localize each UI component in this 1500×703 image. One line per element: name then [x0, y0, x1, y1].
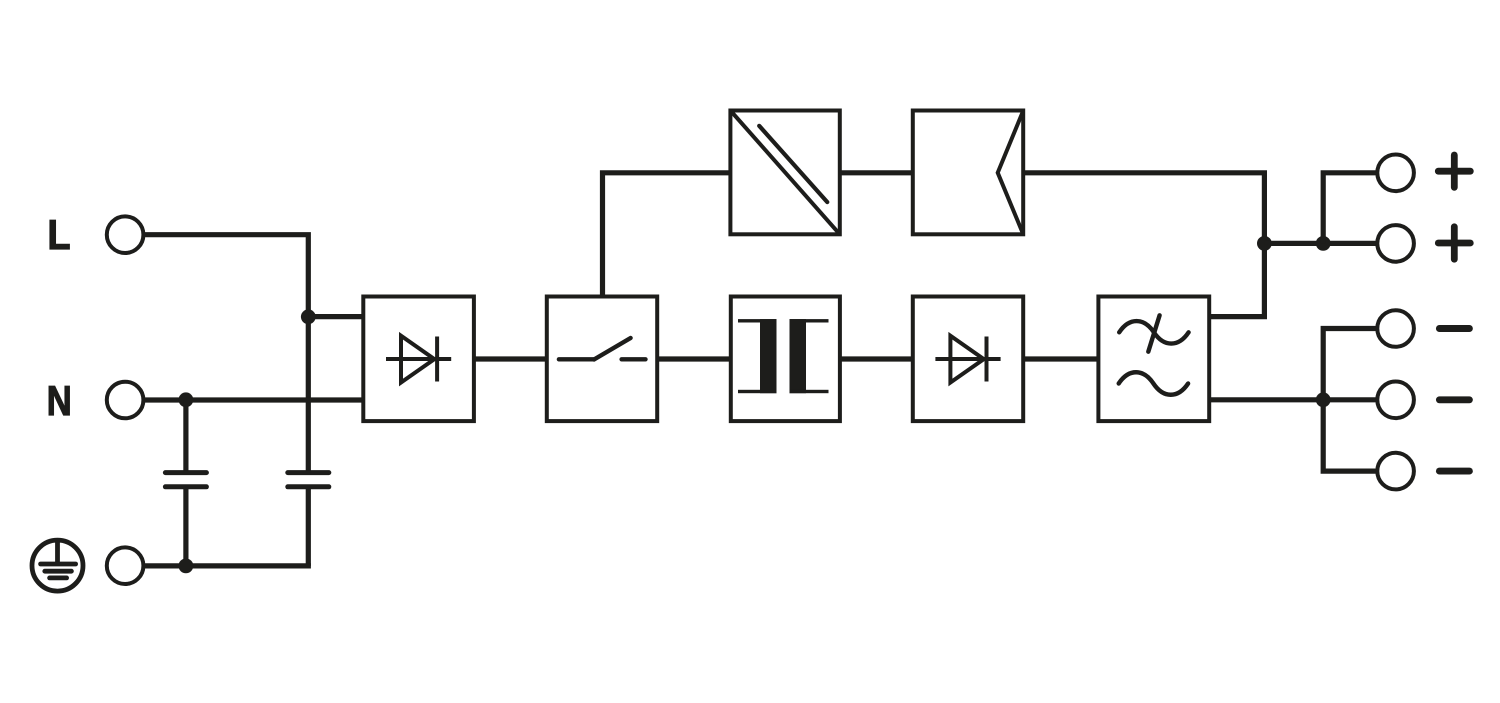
diode D2	[935, 336, 1000, 383]
svg-text:L: L	[48, 211, 71, 258]
terminal PE	[107, 547, 144, 584]
terminal plus 2	[1377, 225, 1414, 262]
wire junction to rectifier input	[308, 314, 363, 319]
converter diagonal symbol	[730, 111, 839, 235]
plus sign 2	[1438, 227, 1470, 259]
terminal N	[107, 382, 144, 419]
wire C1 to PE line	[183, 488, 188, 566]
rectifier block U2	[913, 297, 1023, 422]
minus sign 3	[1439, 468, 1469, 475]
wire N to rectifier input	[144, 397, 363, 402]
wire minus rail from filter	[1209, 397, 1375, 402]
wire T2 to output node	[1023, 173, 1264, 317]
switch symbol	[559, 338, 646, 360]
capacitor C1	[165, 473, 206, 487]
node plus rail junction 1	[1257, 236, 1272, 251]
terminal plus 1	[1377, 155, 1414, 192]
node N junction	[179, 392, 194, 407]
node minus junction	[1316, 392, 1331, 407]
capacitor C2	[288, 473, 329, 487]
limiter chevron symbol	[998, 112, 1023, 232]
wire transformer to rectifier D2	[840, 356, 913, 361]
wire N junction down to C1	[183, 400, 188, 471]
minus sign 1	[1439, 325, 1469, 332]
dc/dc converter block T1	[730, 111, 839, 235]
wire rectifier D2 to filter	[1023, 356, 1098, 361]
transformer winding symbol	[738, 319, 829, 393]
switch block S1	[547, 297, 657, 422]
wire switch top to converter T1	[603, 173, 731, 297]
wire PE line	[144, 563, 311, 568]
transformer block TR1	[731, 297, 840, 422]
node PE junction	[179, 559, 194, 574]
rectifier block U1	[363, 297, 474, 422]
node plus rail junction 2	[1316, 236, 1331, 251]
filter symbol: crossed sine over sine	[1119, 315, 1189, 394]
wire C2 to PE line	[306, 488, 311, 566]
terminal minus 2	[1377, 382, 1414, 419]
terminal minus 1	[1377, 310, 1414, 347]
terminal L	[107, 216, 144, 253]
diode D1	[386, 336, 451, 383]
svg-text:N: N	[47, 377, 72, 424]
node L-branch junction	[301, 309, 316, 324]
wire rectifier to switch	[474, 356, 547, 361]
terminal minus 3	[1377, 453, 1414, 490]
filter block F1	[1098, 297, 1209, 422]
limiter block T2	[913, 111, 1023, 235]
wire minus branches	[1323, 329, 1375, 472]
wire L to vertical drop	[144, 235, 308, 471]
wire plus branch up to terminal 1	[1323, 173, 1375, 244]
ground symbol PE	[32, 540, 83, 591]
plus sign 1	[1438, 155, 1470, 187]
wire switch to transformer	[657, 356, 731, 361]
wire T1 to T2	[840, 170, 913, 175]
wire plus rail	[1264, 241, 1375, 246]
minus sign 2	[1439, 396, 1469, 403]
